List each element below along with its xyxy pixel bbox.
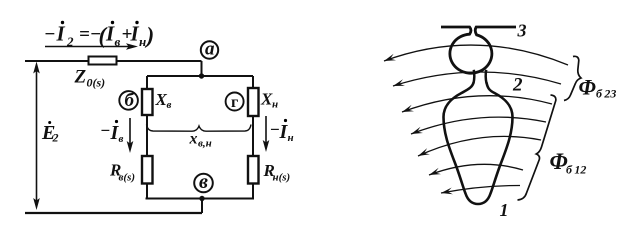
brace for Phi_b12 [518,95,556,200]
flux arc 7 [441,185,520,193]
wire: drop to bottom rail [201,199,203,214]
wire: upper cross wire between branches [147,75,253,77]
wire: left branch upper stub [146,76,148,89]
node a (circled) [201,39,218,60]
pear body (node 1-2) [444,83,513,205]
flux arc 5 [418,136,541,156]
svg-text:н: н [272,99,278,111]
flux arc 4 [411,117,546,134]
resistor Rv(s) box [142,156,153,184]
wire: bend down to node a junction [201,61,203,76]
svg-text:б: б [125,90,136,111]
label -I2=-(Iv+In) [44,21,154,49]
svg-text:−: − [270,120,280,139]
svg-text:Z: Z [74,67,87,88]
svg-text:I: I [56,22,66,46]
svg-text:в,н: в,н [198,138,212,150]
svg-text:г: г [231,94,238,111]
wire: top rail [25,60,202,62]
reactance Xn box [248,88,259,116]
wire: left branch lower stub [146,184,148,199]
svg-text:в: в [199,171,208,193]
svg-text:I: I [105,22,115,46]
flux arc 3 [402,96,552,112]
flux arc 2 [393,72,561,86]
wire: lower cross wire [146,198,255,200]
svg-text:x: x [189,131,198,148]
flux arc 1 [384,45,568,65]
top bar left, hooking into circle mouth [441,27,516,73]
svg-text:2: 2 [512,75,523,96]
svg-text:в(s): в(s) [119,172,136,184]
svg-text:в: в [119,133,124,145]
svg-text:−: − [44,24,56,45]
wire: right branch upper stub [252,76,254,88]
wire: right branch mid [252,116,254,156]
reactance Xv box [142,89,153,115]
flux arc 6 [429,164,523,175]
svg-text:а: а [205,39,215,60]
svg-text:): ) [145,23,155,48]
wire: left branch mid [146,115,148,156]
svg-text:I: I [130,22,140,46]
EMF E2 arrow [33,62,58,211]
svg-text:н: н [288,132,294,144]
junction dot at node v [199,196,204,201]
svg-text:Φ: Φ [579,75,596,100]
wire: right branch lower stub [252,184,254,199]
resistor Rn(s) box [248,156,259,184]
svg-text:Φ: Φ [550,149,568,174]
node b (circled) [119,90,138,111]
current arrow for -I2 [45,43,138,50]
current arrow -Iv [100,118,133,153]
svg-text:3: 3 [517,21,527,41]
brace for Phi_b23 [564,56,581,100]
svg-text:−: − [100,121,110,140]
impedance Z0(s) box [89,57,117,65]
node g (circled) [226,93,244,112]
svg-text:1: 1 [500,200,509,220]
junction dot at node a [199,73,204,78]
waist between circle and pear [474,70,487,83]
svg-text:б 12: б 12 [566,163,586,177]
svg-text:н(s): н(s) [273,172,291,184]
brace x_v,n between branches [147,125,252,132]
current arrow -In [263,116,294,152]
wire: bottom rail [25,212,202,214]
svg-text:б 23: б 23 [596,87,616,101]
svg-text:2: 2 [52,131,59,145]
svg-text:0(s): 0(s) [87,76,106,90]
svg-text:в: в [167,99,172,111]
node v (circled) [194,171,213,193]
svg-text:н: н [139,34,146,49]
